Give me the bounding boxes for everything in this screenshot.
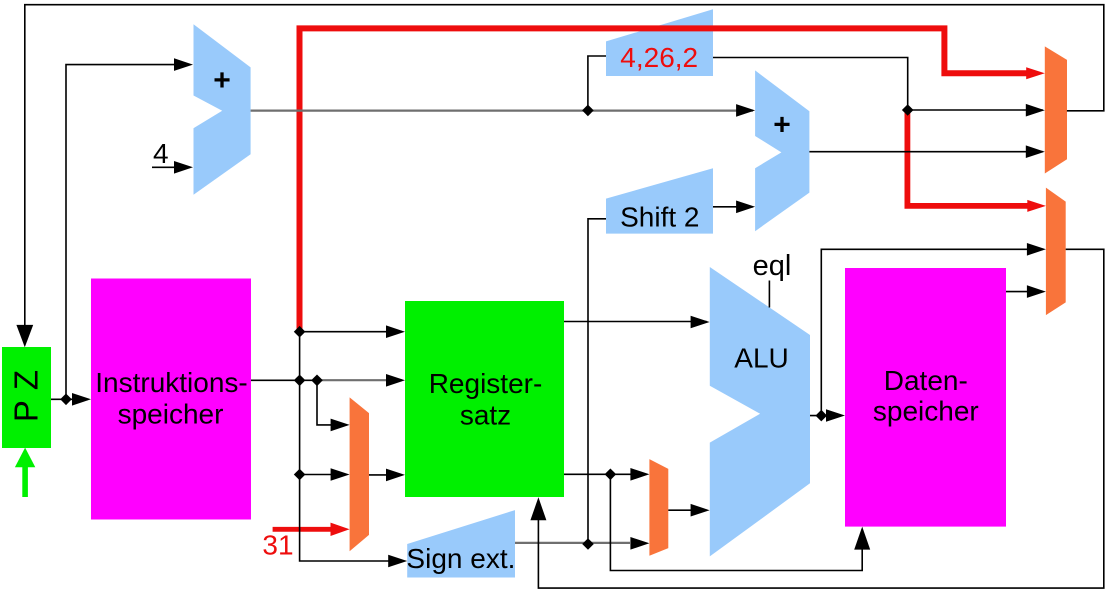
svg-text:PZ: PZ [8,360,45,422]
svg-text:ALU: ALU [734,343,788,374]
svg-text:speicher: speicher [118,399,224,430]
svg-text:Instruktions-: Instruktions- [95,367,248,398]
svg-text:31: 31 [262,530,293,561]
svg-text:Sign ext.: Sign ext. [406,543,515,574]
svg-text:4: 4 [153,138,169,169]
svg-text:eql: eql [753,250,792,282]
svg-text:Daten-: Daten- [884,365,968,396]
svg-text:satz: satz [460,400,511,431]
svg-text:+: + [773,109,791,142]
svg-text:Shift 2: Shift 2 [620,201,699,232]
svg-text:4,26,2: 4,26,2 [620,42,698,73]
svg-text:+: + [213,64,231,97]
svg-text:speicher: speicher [873,395,979,426]
svg-text:Register-: Register- [429,368,543,399]
